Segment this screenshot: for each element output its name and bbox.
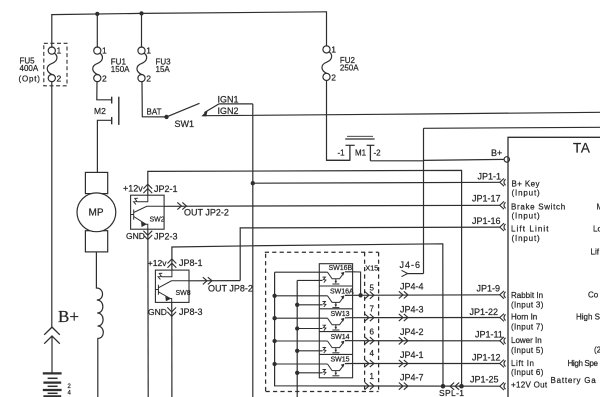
svg-text:SW2: SW2 xyxy=(150,217,165,224)
SW16B symbol xyxy=(328,272,345,284)
svg-text:JP1-17: JP1-17 xyxy=(472,194,501,204)
wire FU5 to B+ chevron (battery positive lead) xyxy=(51,82,53,327)
svg-text:Co: Co xyxy=(588,291,599,300)
motor MP xyxy=(77,172,116,252)
svg-text:Lift Linit: Lift Linit xyxy=(511,225,550,234)
X15 chevrons pin 1 xyxy=(365,382,374,389)
fuse FU2 xyxy=(322,46,332,81)
svg-text:(Opt): (Opt) xyxy=(19,75,41,84)
bus A (left return bus to X15 pin 1) xyxy=(275,272,500,386)
switch SW2 internals xyxy=(131,195,165,229)
svg-text:1: 1 xyxy=(370,372,375,381)
svg-text:2: 2 xyxy=(146,74,151,84)
svg-text:B+ Key: B+ Key xyxy=(512,180,540,189)
svg-text:SW8: SW8 xyxy=(176,290,191,297)
node B+ at TA xyxy=(504,157,509,162)
wire +12v JP2-1 feed (B+ Key net) xyxy=(148,170,462,386)
wire J4-6 xyxy=(408,273,424,275)
SW13 input lead xyxy=(275,317,328,319)
wire IGN1 xyxy=(204,104,253,113)
SW13 bias hook xyxy=(323,325,326,331)
svg-text:SW16A: SW16A xyxy=(330,288,354,295)
svg-text:(Input): (Input) xyxy=(512,212,541,221)
svg-text:(Input 6): (Input 6) xyxy=(511,368,544,377)
svg-text:SW16B: SW16B xyxy=(329,265,353,272)
wire B+ feed to TA xyxy=(424,159,505,160)
svg-text:IGN1: IGN1 xyxy=(218,94,239,104)
wire IGN1 vertical drop (key switch feed) xyxy=(252,104,254,397)
svg-text:2: 2 xyxy=(331,72,336,82)
svg-text:Horn In: Horn In xyxy=(511,313,537,322)
junction dot FU1 top xyxy=(95,12,99,16)
svg-text:JP1-12: JP1-12 xyxy=(472,352,501,362)
svg-text:MP: MP xyxy=(89,208,104,219)
TA pin function labels xyxy=(511,180,566,390)
wire FU5 top lead xyxy=(51,15,53,48)
TA input arrow JP1-22 xyxy=(500,314,506,322)
switch SW8 box xyxy=(155,270,189,302)
battery connector chevrons B+ xyxy=(44,327,60,344)
junction dot bus A SW16A xyxy=(272,294,276,298)
connector arrow +12v JP8-1 xyxy=(168,259,177,268)
wire coil line to right edge xyxy=(424,127,600,128)
svg-text:JP2-1: JP2-1 xyxy=(154,184,178,194)
wire SW2 to GND chevron xyxy=(147,229,149,240)
SW15 input lead xyxy=(275,363,328,365)
svg-text:7: 7 xyxy=(370,304,375,313)
svg-text:Lo: Lo xyxy=(593,225,600,234)
junction dot bus A SW13 xyxy=(272,316,276,320)
X15 chevrons pin 4 xyxy=(365,360,374,367)
junction dot SW16B output xyxy=(358,293,362,297)
wire FU2 to M1 xyxy=(327,81,350,161)
wire FU1 to M2 xyxy=(97,82,112,100)
wire GND JP8-3 to bottom edge xyxy=(171,317,173,397)
svg-text:1: 1 xyxy=(57,46,62,56)
wire FU1 top lead xyxy=(96,14,98,47)
X15 chevrons pin 6 xyxy=(365,337,374,344)
TA input arrow JP1-16 xyxy=(500,223,506,231)
fuse FU5 xyxy=(47,47,57,82)
svg-text:SPL-1: SPL-1 xyxy=(439,388,464,397)
svg-text:1: 1 xyxy=(146,46,151,56)
wire X15 pin 6 line to TA JP1-11 xyxy=(345,340,500,342)
junction dot IGN / JP1-1 xyxy=(251,181,255,185)
svg-text:Brake Switch: Brake Switch xyxy=(511,203,566,212)
contactor M2 xyxy=(112,97,119,125)
svg-text:(Input 5): (Input 5) xyxy=(511,346,544,355)
junction dot FU3 top xyxy=(139,11,143,15)
svg-text:Lift In: Lift In xyxy=(511,359,535,368)
svg-text:B+: B+ xyxy=(491,148,502,158)
switch SW2 emitter arrowhead xyxy=(141,222,147,227)
svg-text:High Spe: High Spe xyxy=(568,359,599,368)
SW14 symbol xyxy=(328,341,345,353)
wire GND JP2-3 to bottom edge xyxy=(147,240,149,397)
fuse FU3 xyxy=(137,47,147,82)
wire IGN feed to +12v JP8-1 and SPL-1 xyxy=(172,244,443,386)
wire B+ chevron to battery xyxy=(51,336,53,373)
junction dot bus A SW15 xyxy=(272,362,276,366)
svg-text:OUT JP2-2: OUT JP2-2 xyxy=(184,208,229,218)
svg-text:JP4-1: JP4-1 xyxy=(400,350,424,360)
svg-text:J4-6: J4-6 xyxy=(400,260,422,270)
svg-text:Battery Ga: Battery Ga xyxy=(551,376,597,385)
svg-text:SW15: SW15 xyxy=(331,357,350,364)
wire M1/J4-6 riser xyxy=(423,128,425,273)
svg-text:JP8-3: JP8-3 xyxy=(179,307,203,317)
cell divider lines xyxy=(319,286,352,354)
contactor M1 xyxy=(327,136,375,161)
SW14 input lead xyxy=(275,340,328,342)
TA right-edge clipped labels xyxy=(551,203,600,386)
svg-text:(Input): (Input) xyxy=(512,189,541,198)
svg-text:-1: -1 xyxy=(338,149,346,158)
svg-text:JP4-7: JP4-7 xyxy=(400,372,424,382)
svg-text:(2: (2 xyxy=(594,346,600,355)
wire top bus xyxy=(52,12,327,15)
wire OUT JP8-2 xyxy=(189,280,240,282)
svg-text:JP1-16: JP1-16 xyxy=(472,216,501,226)
junction dot bus B SW15 xyxy=(295,371,299,375)
svg-text:15A: 15A xyxy=(156,65,171,74)
svg-text:M2: M2 xyxy=(94,106,106,116)
SW15 bias lead xyxy=(297,372,322,374)
wire X15 pin 5 line to TA JP1-9 xyxy=(345,294,500,297)
svg-text:M1: M1 xyxy=(355,149,367,158)
TA input arrow JP1-1 xyxy=(500,178,506,186)
svg-text:(Input 7): (Input 7) xyxy=(511,322,544,331)
switch SW2 box xyxy=(131,195,165,229)
svg-text:GND: GND xyxy=(148,307,167,317)
svg-text:OUT JP8-2: OUT JP8-2 xyxy=(208,284,253,294)
switch SW1 blade from BAT xyxy=(167,103,200,117)
connector arrow GND JP8-3 xyxy=(167,307,176,316)
SW14 bias hook xyxy=(323,348,326,354)
splice SPL-1 dots xyxy=(441,384,446,389)
svg-text:SW1: SW1 xyxy=(175,119,195,129)
svg-text:High S: High S xyxy=(576,313,600,322)
svg-text:JP1-25: JP1-25 xyxy=(470,374,499,384)
TA input arrow JP1-9 xyxy=(500,291,506,299)
svg-text:4: 4 xyxy=(370,349,375,358)
junction dot bus B SW16A xyxy=(295,303,299,307)
svg-text:1: 1 xyxy=(331,44,336,54)
wire SW8 to GND chevron xyxy=(171,302,173,316)
dashed enclosure box (switch cluster) xyxy=(265,252,379,391)
switch SW8 internals xyxy=(155,270,189,302)
svg-text:+12V Out: +12V Out xyxy=(511,380,548,389)
fuse FU5 dashed box xyxy=(44,43,67,86)
controller TA box xyxy=(508,137,600,397)
svg-text:-2: -2 xyxy=(374,149,382,158)
fuse FU1 xyxy=(93,47,103,82)
X15 chevrons pin 7 xyxy=(365,314,374,321)
connector arrow GND JP2-3 xyxy=(143,231,152,240)
junction dot bus B SW14 xyxy=(295,349,299,353)
svg-text:TA: TA xyxy=(573,141,590,156)
svg-text:+12v: +12v xyxy=(148,258,167,268)
SW16A input lead xyxy=(275,295,328,297)
svg-text:1: 1 xyxy=(102,46,107,56)
wire FU3 to BAT xyxy=(142,82,167,117)
svg-text:JP1-11: JP1-11 xyxy=(475,329,503,339)
svg-text:JP2-3: JP2-3 xyxy=(154,232,178,242)
svg-text:150A: 150A xyxy=(111,65,130,74)
svg-text:250A: 250A xyxy=(340,64,359,73)
wire IGN2 (to right edge) xyxy=(205,112,600,115)
SW16B input lead xyxy=(275,271,328,273)
svg-text:JP1-1: JP1-1 xyxy=(478,172,502,182)
connector chevrons OUT JP2-2 xyxy=(177,202,186,209)
wire X15 pin 7 line to TA JP1-22 xyxy=(345,317,500,319)
connector arrow +12v JP2-1 xyxy=(143,184,152,193)
svg-text:6: 6 xyxy=(370,327,375,336)
SW15 bias hook xyxy=(323,370,326,376)
inductor coil below MP xyxy=(96,252,103,397)
SW16B bias hook xyxy=(323,277,326,283)
svg-text:2: 2 xyxy=(57,74,62,84)
svg-text:X15: X15 xyxy=(365,263,378,272)
SW14 bias lead xyxy=(297,350,322,352)
wire FU2 top lead xyxy=(326,12,328,46)
svg-text:JP4-3: JP4-3 xyxy=(400,304,424,314)
junction dot BAT xyxy=(164,115,168,119)
svg-text:BAT: BAT xyxy=(147,107,162,116)
SW15 symbol xyxy=(328,364,345,376)
svg-text:JP1-9: JP1-9 xyxy=(477,284,501,294)
SW1 arrowhead at IGN terminals xyxy=(201,110,208,117)
wire X15 pin 4 line to TA JP1-12 xyxy=(345,363,500,365)
junction dot bus B SW13 xyxy=(295,326,299,330)
wire OUT JP2-2 to JP1-17 (Brake Switch net) xyxy=(164,205,500,206)
wire B+ Key line from IGN dot to TA (JP1-1) xyxy=(253,181,500,184)
connector chevrons OUT JP8-2 xyxy=(203,277,212,284)
splice SPL-1 chevrons xyxy=(450,383,459,390)
svg-text:(Input 3): (Input 3) xyxy=(511,301,544,310)
wire M1 -2 to riser xyxy=(370,160,423,162)
SW16A symbol xyxy=(328,295,345,307)
svg-text:Lower In: Lower In xyxy=(511,336,542,345)
junction dot bus A SW14 xyxy=(272,339,276,343)
X15 chevrons pin 5 xyxy=(365,292,374,299)
SW16A bias lead xyxy=(297,304,322,306)
svg-text:B+: B+ xyxy=(58,307,79,326)
svg-text:2: 2 xyxy=(102,74,107,84)
svg-text:IGN2: IGN2 xyxy=(218,106,239,116)
TA input arrow JP1-12 xyxy=(500,360,506,368)
connector X15 dashed separator xyxy=(364,252,366,391)
svg-text:(Input): (Input) xyxy=(512,234,541,243)
svg-text:JP8-1: JP8-1 xyxy=(179,258,203,268)
bus B (lower bus off bottom edge) xyxy=(296,280,298,397)
battery xyxy=(43,373,62,396)
SW16B bias lead xyxy=(297,279,322,281)
SW16A bias hook xyxy=(323,302,326,308)
svg-text:SW14: SW14 xyxy=(331,334,350,341)
svg-text:M: M xyxy=(597,203,600,212)
TA input arrow JP1-17 xyxy=(500,201,506,209)
svg-text:+12v: +12v xyxy=(123,184,143,194)
wire Lift Limit net: OUT JP8-2 riser to JP1-16 xyxy=(240,227,500,281)
svg-text:Rabbit In: Rabbit In xyxy=(511,291,543,300)
wire SW16B output to pin5 line xyxy=(345,272,361,296)
svg-text:400A: 400A xyxy=(20,64,39,73)
svg-text:GND: GND xyxy=(126,231,145,241)
SW13 symbol xyxy=(328,318,345,330)
svg-text:JP4-4: JP4-4 xyxy=(400,281,424,291)
svg-text:JP1-22: JP1-22 xyxy=(470,307,499,317)
svg-text:SW13: SW13 xyxy=(331,311,350,318)
switch SW8 emitter arrowhead xyxy=(165,296,171,301)
switch container box SW16B/SW16A/SW13/SW14/SW15 xyxy=(319,264,352,378)
TA input arrow JP1-25 xyxy=(500,382,506,390)
svg-text:Lif: Lif xyxy=(591,248,600,257)
SW13 bias lead xyxy=(297,328,322,330)
wire FU3 top lead xyxy=(141,13,143,47)
svg-text:JP4-2: JP4-2 xyxy=(400,327,424,337)
wire M2 to MP motor xyxy=(97,120,111,172)
TA input arrow JP1-11 xyxy=(500,337,506,345)
svg-text:5: 5 xyxy=(370,283,375,292)
